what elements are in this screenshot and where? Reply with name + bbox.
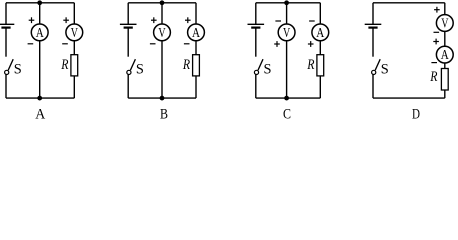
wire B bottom bbox=[128, 97, 196, 99]
battery A-BT bbox=[0, 24, 14, 27]
polarity - meter B right bottom bbox=[184, 43, 190, 45]
svg-text:V: V bbox=[71, 25, 78, 40]
polarity - meter A right bottom bbox=[62, 43, 68, 45]
polarity - meter B mid bottom bbox=[150, 43, 156, 45]
wire B right mid bbox=[195, 41, 197, 55]
polarity - meter A mid bottom bbox=[28, 43, 34, 45]
wire D top bbox=[373, 2, 445, 4]
wire B top bbox=[128, 2, 196, 4]
polarity - meter C mid top bbox=[275, 20, 281, 22]
wire D right upper bbox=[444, 3, 446, 15]
svg-text:R: R bbox=[429, 69, 437, 85]
switch B-S bbox=[127, 59, 136, 74]
polarity + meter C right bottom bbox=[308, 41, 314, 47]
svg-text:S: S bbox=[264, 62, 272, 78]
svg-text:S: S bbox=[381, 62, 389, 78]
battery C-BT bbox=[248, 24, 265, 27]
svg-text:V: V bbox=[283, 25, 290, 40]
resistor C-R bbox=[317, 55, 324, 76]
svg-text:A: A bbox=[35, 106, 45, 119]
resistor A-R bbox=[71, 55, 78, 76]
wire B left middle bbox=[127, 28, 129, 57]
wire C right upper bbox=[319, 3, 321, 24]
svg-text:A: A bbox=[441, 47, 449, 62]
wire A top bbox=[6, 2, 74, 4]
junction node C bottom node bbox=[284, 96, 289, 101]
polarity + voltmeter D top bbox=[434, 7, 440, 13]
wire D left lower bbox=[372, 74, 374, 98]
wire A right mid bbox=[73, 41, 75, 55]
svg-text:A: A bbox=[192, 25, 200, 40]
svg-text:S: S bbox=[14, 62, 22, 78]
battery D-BT bbox=[365, 24, 382, 27]
voltmeter A right bbox=[66, 24, 83, 41]
wire B middle lower bbox=[161, 41, 163, 98]
wire D right between meters bbox=[444, 31, 446, 46]
wire A left lower bbox=[5, 74, 7, 98]
junction node C top node bbox=[284, 0, 289, 5]
junction node B top node bbox=[160, 0, 165, 5]
svg-text:R: R bbox=[60, 57, 68, 73]
wire A right upper bbox=[73, 3, 75, 24]
wire A middle lower bbox=[39, 41, 41, 98]
ammeter C right bbox=[312, 24, 329, 41]
wire C middle upper bbox=[286, 3, 288, 24]
wire D left upper bbox=[372, 3, 374, 25]
voltmeter C mid bbox=[278, 24, 295, 41]
polarity + meter B right top bbox=[185, 17, 191, 23]
ammeter B right bbox=[188, 24, 205, 41]
junction node A top node bbox=[37, 0, 42, 5]
wire C top bbox=[256, 2, 320, 4]
svg-text:D: D bbox=[412, 106, 420, 119]
wire A left middle bbox=[5, 28, 7, 57]
wire B right lower bbox=[195, 76, 197, 98]
wire C left lower bbox=[255, 74, 257, 98]
svg-text:V: V bbox=[158, 25, 165, 40]
voltmeter B mid bbox=[154, 24, 171, 41]
wire B middle upper bbox=[161, 3, 163, 24]
polarity + meter C mid bottom bbox=[274, 41, 280, 47]
wire D right below ammeter bbox=[444, 63, 446, 69]
svg-text:S: S bbox=[136, 62, 144, 78]
polarity + ammeter D top bbox=[433, 39, 439, 45]
wire D bottom bbox=[373, 97, 445, 99]
svg-text:B: B bbox=[160, 106, 168, 119]
wire B left lower bbox=[127, 74, 129, 98]
wire C bottom bbox=[256, 97, 320, 99]
battery B-BT bbox=[120, 24, 137, 27]
svg-text:R: R bbox=[182, 57, 190, 73]
ammeter D amm bbox=[436, 46, 453, 63]
wire A left upper bbox=[5, 3, 7, 25]
wire D right lower bbox=[444, 90, 446, 98]
wire C middle lower bbox=[286, 41, 288, 98]
wire B left upper bbox=[127, 3, 129, 25]
voltmeter D volt bbox=[436, 15, 453, 32]
wire A right lower bbox=[73, 76, 75, 98]
wire A bottom bbox=[6, 97, 74, 99]
resistor D-R bbox=[441, 69, 448, 91]
polarity - meter C right top bbox=[309, 20, 315, 22]
polarity + meter A right top bbox=[63, 17, 69, 23]
svg-text:A: A bbox=[36, 25, 44, 40]
wire D left middle bbox=[372, 28, 374, 57]
resistor B-R bbox=[193, 55, 200, 76]
junction node A bottom node bbox=[37, 96, 42, 101]
polarity + meter B mid top bbox=[151, 17, 157, 23]
svg-text:R: R bbox=[306, 57, 314, 73]
ammeter A mid bbox=[31, 24, 48, 41]
switch C-S bbox=[254, 59, 263, 74]
svg-text:V: V bbox=[441, 15, 448, 30]
wire A middle upper bbox=[39, 3, 41, 24]
wire C right lower bbox=[319, 76, 321, 98]
svg-text:A: A bbox=[316, 25, 324, 40]
svg-text:C: C bbox=[283, 106, 291, 119]
polarity - ammeter D bottom bbox=[431, 62, 437, 64]
wire C left upper bbox=[255, 3, 257, 25]
switch D-S bbox=[372, 59, 381, 74]
wire C left middle bbox=[255, 28, 257, 57]
junction node B bottom node bbox=[160, 96, 165, 101]
wire B right upper bbox=[195, 3, 197, 24]
wire C right mid bbox=[319, 41, 321, 55]
polarity - voltmeter D bottom bbox=[434, 31, 440, 33]
polarity + meter A mid top bbox=[29, 17, 35, 23]
switch A-S bbox=[5, 59, 14, 74]
